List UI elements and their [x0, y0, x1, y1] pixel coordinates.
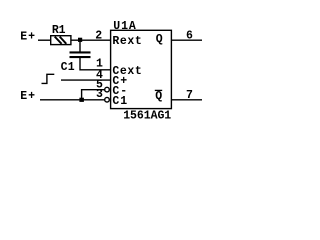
wire E+ to pin 3 — [40, 99, 105, 101]
IC U1A box — [111, 30, 172, 108]
svg-text:3: 3 — [96, 88, 103, 101]
svg-text:1561AG1: 1561AG1 — [123, 110, 171, 123]
svg-text:Q: Q — [155, 90, 162, 103]
wire branch junction up to pin 5 — [82, 90, 105, 100]
svg-text:7: 7 — [186, 89, 193, 102]
pulse trigger symbol — [42, 74, 55, 83]
svg-text:E+: E+ — [20, 90, 35, 103]
wire to pin 4 — [61, 79, 111, 81]
junction (R1/C1 node) — [78, 38, 82, 42]
inversion bubble pin 5 — [105, 87, 110, 92]
wire E+ to resistor R1 — [38, 39, 51, 41]
wire pin 7 (Q-bar output) — [171, 99, 202, 101]
svg-text:E+: E+ — [20, 30, 35, 43]
svg-text:C1: C1 — [61, 61, 75, 74]
svg-text:Q: Q — [156, 33, 163, 46]
capacitor C1 — [70, 51, 91, 58]
svg-text:U1A: U1A — [113, 20, 136, 33]
wire pin 6 (Q output) — [171, 39, 202, 41]
wire junction down to capacitor — [79, 42, 81, 53]
svg-text:6: 6 — [186, 29, 193, 42]
inversion bubble pin 3 — [105, 97, 110, 102]
svg-text:C1: C1 — [112, 95, 127, 108]
wire capacitor to pin 1 — [80, 58, 111, 70]
overline of Q-bar — [155, 89, 162, 91]
resistor R1 — [51, 36, 71, 45]
svg-text:R1: R1 — [52, 24, 66, 37]
wire resistor to pin 2 — [71, 39, 111, 41]
svg-text:Rext: Rext — [112, 35, 141, 48]
svg-text:2: 2 — [95, 29, 102, 42]
junction (E+ node) — [79, 98, 84, 102]
